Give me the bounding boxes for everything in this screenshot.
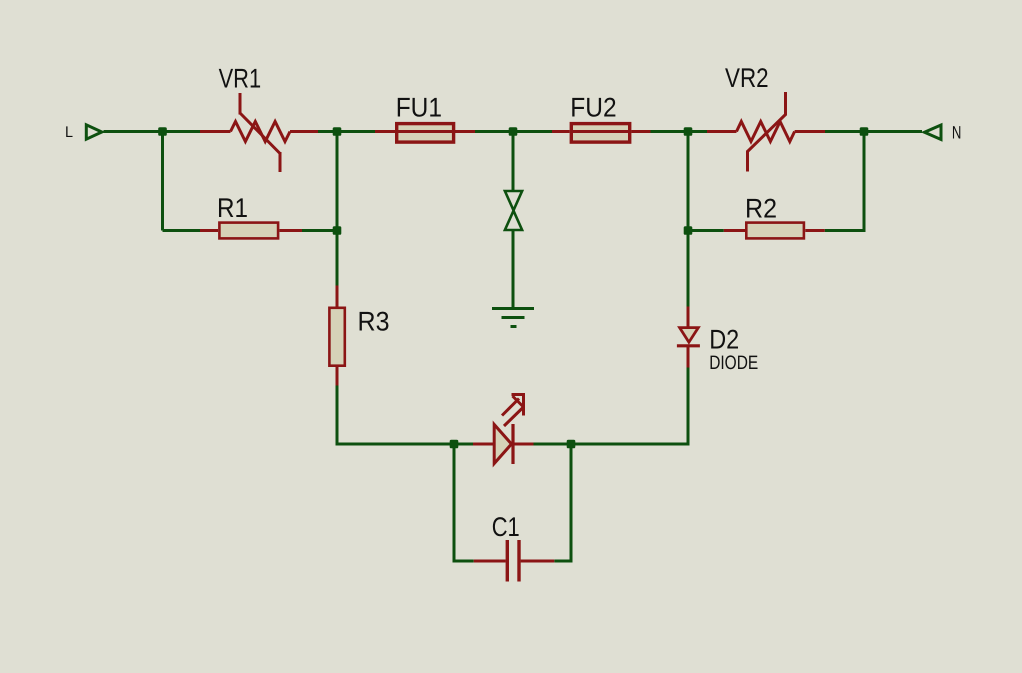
junction node C bbox=[509, 127, 518, 136]
svg-text:R1: R1 bbox=[217, 193, 248, 223]
svg-text:DIODE: DIODE bbox=[709, 352, 758, 374]
varistor VR2 bbox=[707, 92, 825, 172]
terminal N bbox=[925, 125, 942, 140]
resistor R2 bbox=[724, 223, 825, 239]
wire: R2 right to vertical bbox=[825, 132, 864, 231]
wire: FU2 right to node D bbox=[651, 130, 708, 133]
svg-text:R3: R3 bbox=[358, 307, 390, 337]
wire: C1 right branch bbox=[554, 444, 571, 561]
diode D2 bbox=[677, 307, 700, 368]
junction node D2n bbox=[684, 226, 693, 235]
wire: node D vertical to D2 bbox=[687, 132, 690, 307]
svg-text:FU1: FU1 bbox=[396, 92, 442, 122]
wire: R3 bottom to LED row bbox=[337, 386, 473, 445]
wire: R1 row left bbox=[163, 229, 201, 232]
wire: VR2 right to N bbox=[825, 130, 922, 133]
wire: C1 left branch bbox=[454, 444, 474, 561]
svg-text:N: N bbox=[952, 122, 962, 142]
junction node B bbox=[333, 127, 342, 136]
svg-text:L: L bbox=[65, 124, 73, 141]
junction node A bbox=[158, 127, 167, 136]
wire: suppressor to ground bbox=[512, 230, 515, 308]
ground bbox=[492, 309, 534, 327]
LED D1 bbox=[473, 424, 534, 464]
wire: R2 row bbox=[688, 229, 724, 232]
fuse FU1 bbox=[375, 124, 475, 143]
resistor R1 bbox=[200, 223, 302, 239]
bidirectional suppressor bbox=[505, 191, 522, 230]
varistor VR1 bbox=[200, 93, 318, 172]
wire: R1 right to node B2 bbox=[302, 229, 337, 232]
svg-text:R2: R2 bbox=[745, 194, 777, 224]
junction node B2 bbox=[333, 226, 342, 235]
wire: node B vertical to R3 bbox=[336, 132, 339, 286]
junction node G bbox=[567, 440, 576, 449]
svg-text:D2: D2 bbox=[709, 324, 739, 354]
svg-text:VR1: VR1 bbox=[219, 64, 262, 94]
terminal L bbox=[86, 125, 102, 139]
svg-text:FU2: FU2 bbox=[570, 92, 616, 122]
fuse FU2 bbox=[552, 124, 651, 143]
svg-text:VR2: VR2 bbox=[725, 63, 769, 93]
wire: node C to suppressor bbox=[512, 132, 515, 192]
wire: node A vertical bbox=[161, 132, 164, 231]
wire: VR1 right to node B bbox=[318, 130, 375, 133]
junction node D bbox=[684, 127, 693, 136]
capacitor C1 bbox=[474, 540, 555, 582]
wire: D2 bottom to LED row bbox=[534, 368, 689, 445]
wire: L to node A bbox=[104, 130, 201, 133]
svg-text:C1: C1 bbox=[492, 512, 520, 542]
LED arrow bbox=[502, 393, 525, 426]
resistor R3 bbox=[329, 286, 344, 386]
wire: FU1 right to node C bbox=[475, 130, 552, 133]
junction node E bbox=[860, 127, 869, 136]
junction node F bbox=[450, 440, 459, 449]
